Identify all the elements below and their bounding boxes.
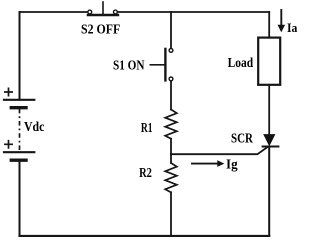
svg-text:Vdc: Vdc xyxy=(24,120,44,135)
svg-text:S2 OFF: S2 OFF xyxy=(81,23,120,38)
svg-text:S1 ON: S1 ON xyxy=(113,59,145,74)
svg-text:SCR: SCR xyxy=(231,131,254,146)
svg-text:Ia: Ia xyxy=(287,21,298,35)
svg-text:Ig: Ig xyxy=(226,158,238,173)
svg-text:R1: R1 xyxy=(141,121,153,136)
svg-text:Load: Load xyxy=(228,56,254,71)
svg-text:R2: R2 xyxy=(139,166,152,181)
